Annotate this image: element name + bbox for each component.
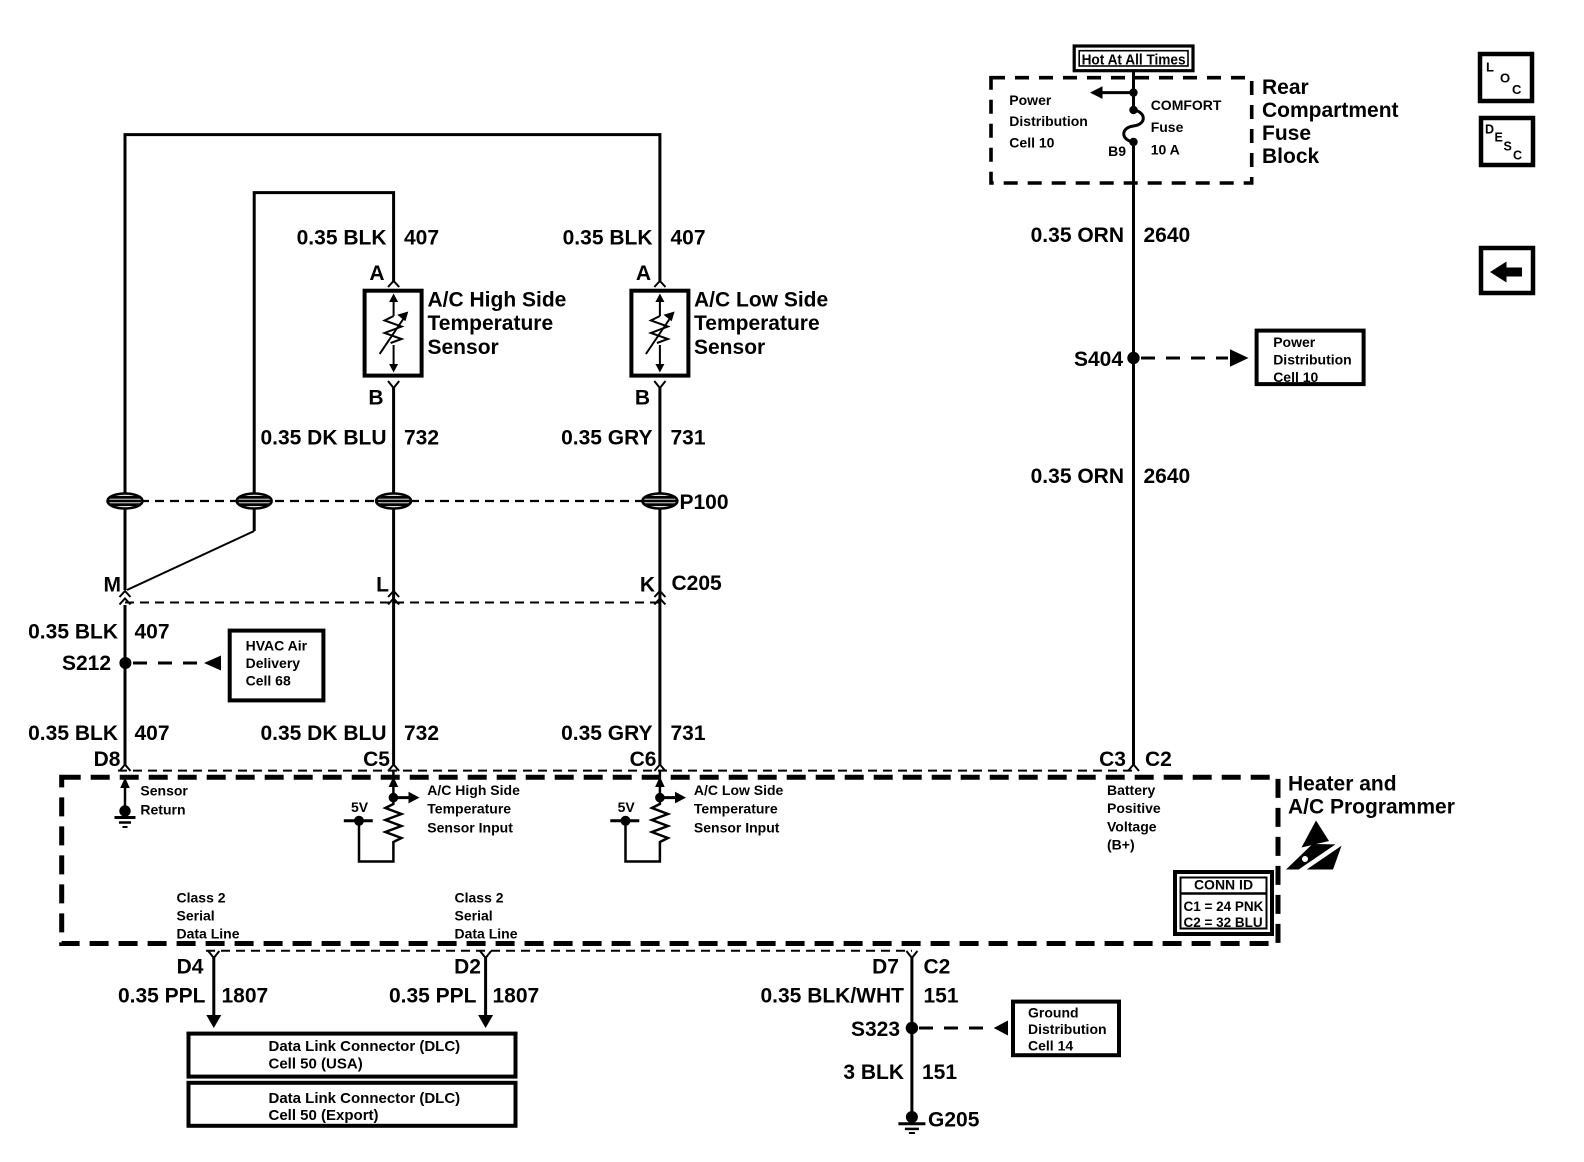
wire bus2 <box>254 193 393 531</box>
svg-text:731: 731 <box>671 427 706 450</box>
svg-text:Data Line: Data Line <box>177 925 240 941</box>
svg-text:D: D <box>1485 123 1494 137</box>
wire label 0.35 DK BLU 732 (above C5) <box>260 722 439 745</box>
dashed pass-through line P100 <box>125 500 660 502</box>
junction node <box>1129 88 1137 96</box>
LOC nav box <box>1480 54 1532 101</box>
svg-text:C2 = 32 BLU: C2 = 32 BLU <box>1184 915 1263 930</box>
svg-text:B: B <box>368 387 383 410</box>
connector pin K C205 <box>640 572 722 605</box>
svg-text:B9: B9 <box>1108 143 1126 159</box>
svg-text:Fuse: Fuse <box>1151 119 1184 135</box>
svg-text:B: B <box>635 387 650 410</box>
svg-text:Cell 10: Cell 10 <box>1009 134 1054 150</box>
svg-text:M: M <box>104 574 122 597</box>
svg-text:C6: C6 <box>630 748 657 771</box>
splice S212 <box>62 652 131 675</box>
svg-text:C1 = 24 PNK: C1 = 24 PNK <box>1184 899 1264 914</box>
connector pin M <box>104 574 131 605</box>
svg-text:C2: C2 <box>1145 748 1172 771</box>
svg-text:2640: 2640 <box>1144 224 1191 247</box>
svg-text:Rear: Rear <box>1262 76 1309 99</box>
svg-text:5V: 5V <box>351 799 369 815</box>
svg-text:Sensor: Sensor <box>694 336 765 359</box>
svg-text:Distribution: Distribution <box>1009 113 1088 129</box>
svg-text:151: 151 <box>924 985 959 1008</box>
svg-text:0.35 BLK: 0.35 BLK <box>297 227 387 250</box>
wire label 0.35 ORN 2640 (lower) <box>1031 465 1191 488</box>
svg-text:Temperature: Temperature <box>694 312 820 335</box>
svg-text:0.35 BLK: 0.35 BLK <box>563 227 653 250</box>
svg-text:C2: C2 <box>924 956 951 979</box>
wire sensor1 B down <box>392 388 395 765</box>
svg-text:D4: D4 <box>177 956 204 979</box>
svg-text:407: 407 <box>135 621 170 644</box>
svg-text:Cell 50 (Export): Cell 50 (Export) <box>269 1107 379 1124</box>
svg-text:Serial: Serial <box>455 907 493 923</box>
svg-text:Data Line: Data Line <box>455 925 518 941</box>
svg-text:Class 2: Class 2 <box>177 889 226 905</box>
svg-text:L: L <box>1486 60 1494 75</box>
svg-text:C: C <box>1512 82 1522 97</box>
svg-text:732: 732 <box>404 427 439 450</box>
pin B sensor1 <box>368 381 399 410</box>
wire label 0.35 PPL 1807 (D2) <box>389 985 539 1008</box>
svg-text:P100: P100 <box>680 491 729 514</box>
svg-text:151: 151 <box>922 1061 957 1084</box>
ground G205 <box>898 1109 979 1134</box>
svg-text:Power: Power <box>1273 334 1316 350</box>
svg-text:A/C Programmer: A/C Programmer <box>1288 796 1455 819</box>
svg-text:0.35 DK BLU: 0.35 DK BLU <box>260 427 386 450</box>
svg-text:0.35 PPL: 0.35 PPL <box>118 985 206 1008</box>
svg-text:407: 407 <box>404 227 439 250</box>
connector pin L <box>376 574 399 605</box>
wire label 0.35 BLK 407 (sensor1) <box>297 227 439 250</box>
svg-text:E: E <box>1495 131 1503 145</box>
arrow to Power Distribution <box>1090 86 1134 99</box>
wire sensor2 B down <box>658 388 661 765</box>
Rear Compartment Fuse Block dashed box <box>991 78 1252 183</box>
wire M down <box>124 605 127 765</box>
dashed connector line C205 <box>125 602 660 604</box>
svg-text:COMFORT: COMFORT <box>1151 97 1222 113</box>
svg-text:1807: 1807 <box>493 985 540 1008</box>
svg-text:Cell 10: Cell 10 <box>1273 369 1318 385</box>
splice S404 <box>1074 348 1140 371</box>
svg-text:D2: D2 <box>454 956 481 979</box>
svg-text:0.35 ORN: 0.35 ORN <box>1031 465 1124 488</box>
svg-text:1807: 1807 <box>222 985 269 1008</box>
DESC nav box <box>1481 118 1533 165</box>
wire label 0.35 BLK 407 (above S212) <box>28 621 169 644</box>
svg-text:K: K <box>640 574 655 597</box>
Hot At All Times box <box>1074 46 1193 71</box>
svg-text:5V: 5V <box>618 799 636 815</box>
svg-text:2640: 2640 <box>1144 465 1191 488</box>
svg-text:Power: Power <box>1009 92 1052 108</box>
label Heater and A/C Programmer <box>1288 773 1455 819</box>
svg-text:A: A <box>636 262 651 285</box>
label Rear Compartment Fuse Block <box>1262 76 1399 168</box>
dashed reference arrow S404 <box>1141 349 1249 366</box>
svg-text:0.35 BLK: 0.35 BLK <box>28 621 118 644</box>
grommet 4 P100 <box>642 491 728 514</box>
svg-text:0.35 PPL: 0.35 PPL <box>389 985 477 1008</box>
svg-text:0.35 GRY: 0.35 GRY <box>561 427 652 450</box>
svg-text:Distribution: Distribution <box>1028 1021 1107 1037</box>
connector pin C6 <box>630 748 666 771</box>
svg-text:Cell 50 (USA): Cell 50 (USA) <box>269 1056 363 1073</box>
svg-text:Data Link Connector (DLC): Data Link Connector (DLC) <box>269 1090 461 1107</box>
Ground Distribution Cell 14 box <box>1013 1002 1119 1056</box>
svg-text:10 A: 10 A <box>1151 141 1180 157</box>
thin connector dashed line top of programmer <box>118 770 1134 772</box>
low side input circuit <box>610 771 783 862</box>
svg-text:Heater and: Heater and <box>1288 773 1397 796</box>
ESD symbol <box>1286 821 1343 873</box>
svg-text:S404: S404 <box>1074 348 1123 371</box>
HVAC Air Delivery Cell 68 box <box>230 631 324 701</box>
Data Link Connector USA box <box>189 1034 516 1077</box>
svg-text:L: L <box>376 574 389 597</box>
svg-text:Positive: Positive <box>1107 800 1161 816</box>
grommet 3 <box>376 494 411 509</box>
svg-text:C3: C3 <box>1099 748 1126 771</box>
svg-text:3 BLK: 3 BLK <box>843 1061 904 1084</box>
svg-text:Temperature: Temperature <box>428 312 554 335</box>
svg-text:Ground: Ground <box>1028 1004 1079 1020</box>
svg-text:Distribution: Distribution <box>1273 352 1352 368</box>
thin connector dashed line bottom of programmer <box>206 950 912 952</box>
class 2 serial data line text (D2) <box>455 889 518 941</box>
svg-text:S212: S212 <box>62 652 111 675</box>
connector pin D4 <box>177 951 220 979</box>
CONN ID table <box>1175 872 1272 934</box>
svg-text:C205: C205 <box>672 572 723 595</box>
wire label 0.35 BLK/WHT 151 <box>760 985 958 1008</box>
A/C High Side Temperature Sensor <box>365 289 567 376</box>
svg-text:Sensor Input: Sensor Input <box>427 820 513 836</box>
svg-text:Data Link Connector (DLC): Data Link Connector (DLC) <box>269 1038 461 1055</box>
svg-text:CONN ID: CONN ID <box>1194 876 1253 892</box>
svg-text:C: C <box>1513 149 1522 163</box>
svg-text:Temperature: Temperature <box>427 801 511 817</box>
wire label 0.35 BLK 407 (sensor2) <box>563 227 706 250</box>
svg-text:Serial: Serial <box>177 907 215 923</box>
wire fuse down to C3 <box>1132 142 1135 765</box>
battery positive voltage text <box>1107 782 1161 853</box>
back arrow nav box <box>1481 248 1533 293</box>
splice S323 <box>851 1018 918 1041</box>
svg-text:G205: G205 <box>928 1109 980 1132</box>
svg-text:0.35 GRY: 0.35 GRY <box>561 722 652 745</box>
wire D2 with arrow <box>478 958 493 1028</box>
svg-text:0.35 BLK/WHT: 0.35 BLK/WHT <box>760 985 904 1008</box>
svg-text:O: O <box>1500 71 1510 86</box>
svg-text:Sensor: Sensor <box>428 336 499 359</box>
svg-text:Fuse: Fuse <box>1262 122 1311 145</box>
svg-text:731: 731 <box>671 722 706 745</box>
dashed reference arrow S212 <box>133 656 221 671</box>
connector pin C5 <box>363 748 399 771</box>
svg-text:D7: D7 <box>872 956 899 979</box>
wire bus1 top <box>125 135 660 590</box>
svg-text:Battery: Battery <box>1107 782 1155 798</box>
svg-text:0.35 BLK: 0.35 BLK <box>28 722 118 745</box>
svg-text:Voltage: Voltage <box>1107 818 1157 834</box>
connector pin D8 <box>94 748 131 771</box>
pin B sensor2 <box>635 381 666 410</box>
sensor return ground <box>115 778 189 828</box>
svg-text:Compartment: Compartment <box>1262 99 1399 122</box>
svg-text:Block: Block <box>1262 145 1320 168</box>
text Power Distribution Cell 10 <box>1009 92 1088 150</box>
svg-text:Hot At All Times: Hot At All Times <box>1082 51 1186 68</box>
svg-text:407: 407 <box>671 227 706 250</box>
svg-text:S323: S323 <box>851 1018 900 1041</box>
svg-text:Class 2: Class 2 <box>455 889 504 905</box>
connector pin D2 <box>454 951 491 979</box>
svg-text:0.35 DK BLU: 0.35 DK BLU <box>260 722 386 745</box>
svg-text:Delivery: Delivery <box>246 655 301 671</box>
wire label 0.35 BLK 407 (above D8) <box>28 722 169 745</box>
pin A sensor1 <box>369 262 399 287</box>
svg-text:Return: Return <box>140 802 185 818</box>
wire label 0.35 DK BLU 732 <box>260 427 439 450</box>
wire label 0.35 PPL 1807 (D4) <box>118 985 268 1008</box>
svg-text:S: S <box>1504 140 1512 154</box>
grommet 1 <box>108 494 143 509</box>
pin labels C3 C2 <box>1099 748 1172 771</box>
dashed reference arrow S323 <box>919 1021 1008 1036</box>
svg-text:A/C High Side: A/C High Side <box>427 782 520 798</box>
svg-text:Sensor Input: Sensor Input <box>694 820 780 836</box>
svg-text:(B+): (B+) <box>1107 837 1135 853</box>
svg-text:D8: D8 <box>94 748 121 771</box>
class 2 serial data line text (D4) <box>177 889 240 941</box>
svg-text:A: A <box>369 262 384 285</box>
svg-text:0.35 ORN: 0.35 ORN <box>1031 224 1124 247</box>
wire label 0.35 GRY 731 (above C6) <box>561 722 706 745</box>
svg-text:A/C High Side: A/C High Side <box>428 289 567 312</box>
connector pin D7 C2 <box>872 951 950 979</box>
svg-text:732: 732 <box>404 722 439 745</box>
wire label 0.35 GRY 731 <box>561 427 706 450</box>
wire label 3 BLK 151 <box>843 1061 957 1084</box>
pin A sensor2 <box>636 262 666 287</box>
wire from Hot box into fuse <box>1132 71 1135 110</box>
connector pin C3/C2 <box>1128 765 1139 772</box>
wire diagonal to M <box>127 531 254 590</box>
high side input circuit <box>344 771 520 862</box>
Data Link Connector Export box <box>189 1083 516 1126</box>
wire D7 down <box>910 958 913 1116</box>
svg-text:Cell 68: Cell 68 <box>246 672 291 688</box>
fuse COMFORT 10A B9 <box>1108 97 1222 159</box>
Power Distribution Cell 10 box <box>1257 331 1364 385</box>
A/C Low Side Temperature Sensor <box>631 289 828 376</box>
wire D4 with arrow <box>206 958 221 1028</box>
svg-text:Cell 14: Cell 14 <box>1028 1037 1073 1053</box>
Heater and A/C Programmer dashed box <box>62 777 1278 943</box>
svg-text:407: 407 <box>135 722 170 745</box>
wire label 0.35 ORN 2640 (upper) <box>1031 224 1191 247</box>
svg-text:A/C Low Side: A/C Low Side <box>694 289 828 312</box>
svg-text:C5: C5 <box>363 748 390 771</box>
svg-text:Sensor: Sensor <box>140 783 188 799</box>
svg-text:HVAC Air: HVAC Air <box>246 637 308 653</box>
svg-text:Temperature: Temperature <box>694 801 778 817</box>
svg-text:A/C Low Side: A/C Low Side <box>694 782 784 798</box>
grommet 2 <box>237 494 272 509</box>
